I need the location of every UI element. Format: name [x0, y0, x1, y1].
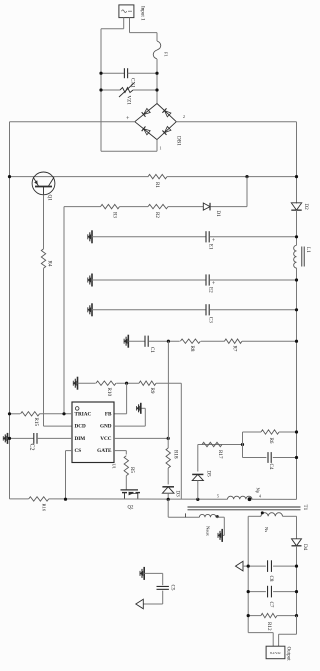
svg-text:C5: C5: [170, 585, 176, 591]
svg-text:GATE: GATE: [97, 448, 112, 454]
svg-text:8.4 Vdc: 8.4 Vdc: [270, 651, 281, 655]
svg-text:R15: R15: [33, 418, 39, 427]
svg-text:GND: GND: [100, 424, 112, 430]
svg-text:R18: R18: [173, 450, 179, 459]
svg-text:R8: R8: [189, 346, 195, 352]
svg-text:R6: R6: [268, 438, 274, 444]
svg-text:D3: D3: [175, 491, 181, 498]
svg-text:Output: Output: [286, 647, 292, 662]
svg-text:Ns: Ns: [264, 527, 269, 532]
svg-text:D2: D2: [303, 204, 309, 211]
svg-text:DB1: DB1: [176, 136, 182, 146]
svg-text:2: 2: [183, 115, 185, 119]
svg-text:DCD: DCD: [75, 424, 86, 430]
svg-text:VZ1: VZ1: [126, 96, 132, 106]
svg-text:TRIAC: TRIAC: [75, 411, 92, 417]
svg-text:CS: CS: [75, 448, 82, 454]
svg-text:E2: E2: [208, 287, 214, 293]
svg-text:T1: T1: [302, 505, 308, 511]
svg-text:Q2: Q2: [128, 506, 134, 511]
svg-text:L1: L1: [305, 247, 311, 253]
svg-text:C2: C2: [29, 444, 35, 451]
svg-text:F1: F1: [164, 52, 169, 57]
svg-text:Q1: Q1: [47, 195, 53, 202]
svg-text:VCC: VCC: [100, 436, 111, 442]
svg-text:D1: D1: [215, 211, 221, 218]
svg-text:C4: C4: [268, 464, 274, 470]
svg-text:R10: R10: [106, 388, 112, 397]
svg-text:R2: R2: [154, 212, 160, 218]
svg-text:R3: R3: [112, 212, 118, 218]
svg-text:FB: FB: [105, 411, 112, 417]
svg-text:4: 4: [259, 495, 261, 499]
svg-text:E1: E1: [208, 244, 214, 250]
svg-text:R5: R5: [129, 467, 135, 473]
svg-text:R1: R1: [154, 182, 160, 188]
svg-text:+: +: [126, 116, 130, 122]
svg-text:R12: R12: [266, 622, 272, 631]
svg-text:DIM: DIM: [75, 436, 86, 442]
svg-text:R9: R9: [149, 388, 155, 394]
svg-text:R17: R17: [217, 450, 223, 459]
svg-text:R16: R16: [42, 504, 47, 512]
svg-text:R4: R4: [47, 261, 53, 267]
svg-text:Input 1: Input 1: [140, 6, 146, 21]
svg-text:5: 5: [217, 495, 219, 499]
svg-text:C3: C3: [208, 317, 214, 323]
svg-text:1: 1: [160, 147, 162, 151]
svg-text:C1: C1: [149, 347, 155, 353]
svg-text:C8: C8: [268, 576, 274, 582]
svg-text:D4: D4: [302, 544, 308, 551]
svg-text:U1: U1: [112, 464, 117, 469]
svg-text:Naux: Naux: [206, 526, 211, 537]
svg-text:Np: Np: [256, 488, 261, 494]
svg-text:D5: D5: [206, 471, 212, 478]
svg-text:C7: C7: [268, 602, 274, 608]
svg-text:R7: R7: [232, 346, 238, 352]
